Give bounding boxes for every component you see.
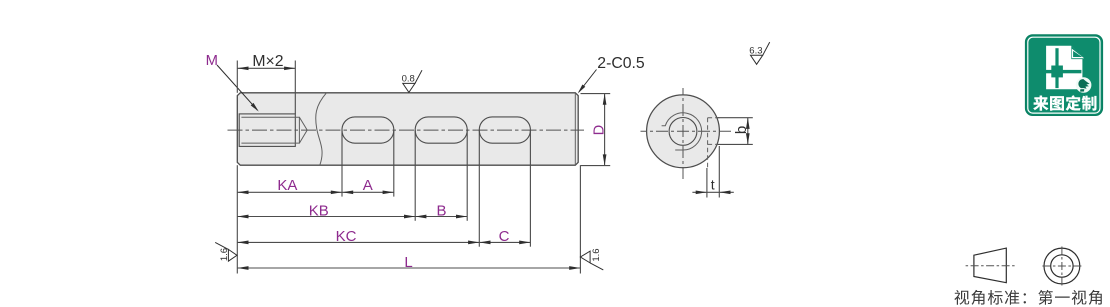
svg-text:KB: KB: [309, 202, 329, 219]
svg-text:KA: KA: [277, 177, 297, 194]
extension line slot3 left: [478, 130, 480, 247]
label KA: [277, 177, 297, 194]
svg-text:L: L: [404, 254, 412, 271]
svg-text:1.6: 1.6: [219, 248, 230, 261]
extension line slot3 right: [529, 130, 531, 247]
C dimension line: [479, 241, 530, 245]
label B: [436, 202, 446, 219]
label L: [404, 254, 412, 271]
b dimension line: [746, 118, 750, 145]
keyway slot 1: [342, 117, 394, 143]
thread major arc (3/4 circle): [662, 113, 702, 150]
icon badge circle with hand: [1076, 77, 1092, 93]
end view centerlines: [641, 88, 732, 180]
extension line slot2 left: [414, 130, 416, 221]
svg-text:A: A: [363, 177, 373, 194]
leader line for 2-C0.5: [578, 70, 597, 94]
label b: [733, 126, 750, 134]
svg-text:t: t: [711, 177, 715, 193]
svg-text:1.6: 1.6: [591, 248, 602, 261]
surface finish 0.8 on shaft top: [402, 70, 422, 92]
hidden keyway lines (dashed): [708, 118, 720, 168]
KB dimension line: [237, 215, 415, 219]
break line (partial view wave): [316, 93, 327, 165]
KC dimension line: [237, 241, 479, 245]
tapped hole minor circle: [669, 117, 697, 145]
label t: [711, 177, 715, 193]
end view outer circle: [647, 95, 720, 168]
KA dimension line: [237, 190, 342, 194]
circles centerlines: [1042, 246, 1082, 287]
surface finish 1.6 left: [215, 242, 237, 261]
B dimension line: [415, 215, 467, 219]
M×2 dimension line: [237, 66, 295, 70]
custom-drawing icon background: [1026, 35, 1103, 115]
extension line slot1 right: [393, 130, 395, 197]
svg-text:C: C: [499, 228, 510, 245]
icon document sheet: [1046, 46, 1085, 90]
label D: [591, 125, 607, 135]
svg-text:0.8: 0.8: [402, 74, 415, 85]
A dimension line: [342, 190, 394, 194]
svg-text:6.3: 6.3: [749, 46, 762, 57]
projection symbol circles: [1044, 248, 1080, 284]
extension line slot1 left: [341, 130, 343, 197]
shaft body side view: [237, 93, 578, 165]
svg-text:D: D: [591, 125, 607, 135]
right end chamfer line: [574, 93, 576, 165]
svg-text:2-C0.5: 2-C0.5: [597, 55, 645, 72]
M×2 extension lines: [237, 61, 295, 114]
label KB: [309, 202, 329, 219]
svg-text:B: B: [436, 202, 446, 219]
L dimension line: [237, 266, 580, 270]
tapped hole M thread outer rectangle: [239, 114, 295, 146]
D dimension extension lines: [581, 94, 611, 166]
D dimension line: [603, 94, 607, 166]
shaft centerline: [228, 129, 585, 131]
right master extension line: [579, 165, 581, 273]
surface finish 6.3 (general, top right): [749, 42, 769, 64]
svg-text:b: b: [733, 126, 750, 134]
svg-text:M×2: M×2: [252, 53, 283, 70]
label M (thread size): [206, 53, 218, 69]
label KC: [336, 228, 357, 245]
projection symbol truncated cone: [974, 248, 1006, 283]
label C: [499, 228, 510, 245]
extension line slot2 right: [466, 130, 468, 221]
tapped hole drill inner profile: [241, 117, 307, 143]
svg-text:M: M: [206, 53, 218, 69]
icon crosshair: [1042, 48, 1081, 88]
label A: [363, 177, 373, 194]
icon caption 来图定制: [1033, 95, 1096, 110]
label M×2: [252, 53, 283, 70]
b dimension extension lines: [718, 118, 753, 145]
leader line from M to thread: [217, 65, 259, 112]
t dimension line with outside arrows: [692, 190, 733, 194]
keyway slot 3: [479, 117, 530, 143]
keyway slot 2: [415, 117, 467, 143]
left master extension line: [236, 165, 238, 273]
caption: view standard first angle: [954, 290, 1101, 305]
label 2-C0.5 chamfer: [597, 55, 645, 72]
t dimension extension lines: [707, 146, 719, 198]
svg-text:KC: KC: [336, 228, 357, 245]
surface finish 1.6 right: [580, 248, 603, 270]
cone centerline: [966, 265, 1015, 267]
